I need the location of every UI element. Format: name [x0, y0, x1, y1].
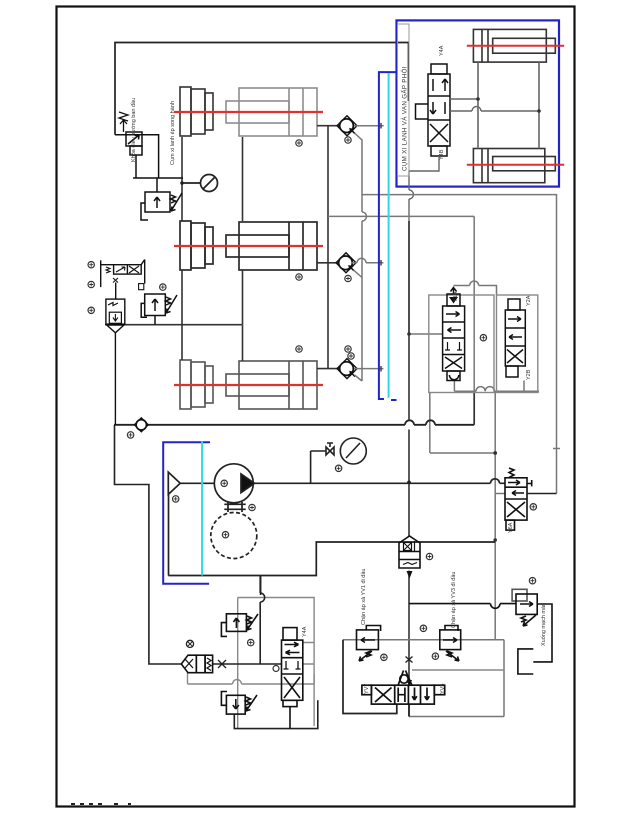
svg-text:Y2A: Y2A [526, 295, 532, 306]
svg-text:Y4A: Y4A [439, 45, 445, 56]
svg-text:Y6A: Y6A [508, 522, 514, 533]
svg-text:Xuống mạch màn: Xuống mạch màn [541, 603, 547, 646]
svg-text:Khóa điều hướng ban đầu: Khóa điều hướng ban đầu [131, 98, 137, 162]
svg-text:Y4B: Y4B [439, 149, 445, 160]
svg-text:YV5: YV5 [440, 684, 446, 694]
svg-text:CỤM XI LANH VÀ VAN GẤP PHÔI: CỤM XI LANH VÀ VAN GẤP PHÔI [401, 66, 408, 171]
svg-text:Y1A: Y1A [453, 291, 459, 302]
svg-text:Chặn áp xả YV1 đi đầu: Chặn áp xả YV1 đi đầu [361, 569, 367, 625]
svg-text:Cụm xi lanh ép song hành: Cụm xi lanh ép song hành [170, 101, 176, 165]
svg-text:Y2B: Y2B [526, 369, 532, 380]
svg-text:Y4A: Y4A [302, 626, 308, 637]
svg-text:YV7: YV7 [364, 684, 370, 694]
svg-text:Chặn áp xả YV3 đi đầu: Chặn áp xả YV3 đi đầu [451, 572, 457, 628]
